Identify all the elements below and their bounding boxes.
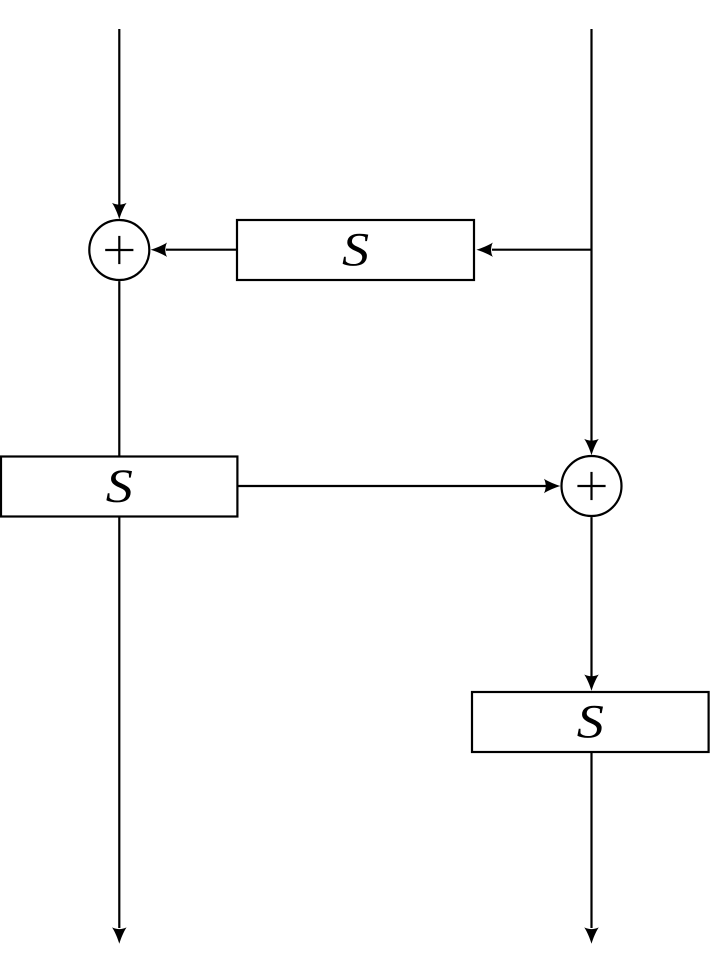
- wire X2 to S3: [590, 517, 592, 677]
- wire S1 to X1: [166, 249, 237, 251]
- arrowhead left output: [112, 927, 127, 943]
- sbox S1 (top): [237, 220, 474, 280]
- wire left output: [118, 517, 120, 929]
- svg-text:S: S: [106, 460, 133, 513]
- arrowhead S1 to X1: [151, 242, 167, 257]
- sbox S2 (left): [1, 457, 237, 517]
- svg-text:S: S: [577, 695, 604, 748]
- svg-text:S: S: [342, 223, 369, 276]
- arrowhead into xor X2 top: [584, 439, 599, 455]
- xor X1: [89, 220, 149, 280]
- wire S2 to X2: [237, 485, 546, 487]
- arrowhead S2 to X2: [544, 479, 560, 494]
- arrowhead into S1 right edge: [476, 242, 492, 257]
- wire right input (top, through branch, down to X2): [590, 29, 592, 441]
- arrowhead into xor X1 top: [112, 203, 127, 219]
- arrowhead right output: [584, 927, 599, 943]
- sbox S3 (bottom right): [472, 692, 709, 752]
- wire right output: [590, 752, 592, 928]
- wire branch right line to S1: [492, 249, 592, 251]
- wire X1 to S2 (left line, middle): [118, 281, 120, 457]
- xor X2: [562, 456, 622, 516]
- wire left input (top): [118, 29, 120, 205]
- arrowhead into S3 top: [584, 675, 599, 691]
